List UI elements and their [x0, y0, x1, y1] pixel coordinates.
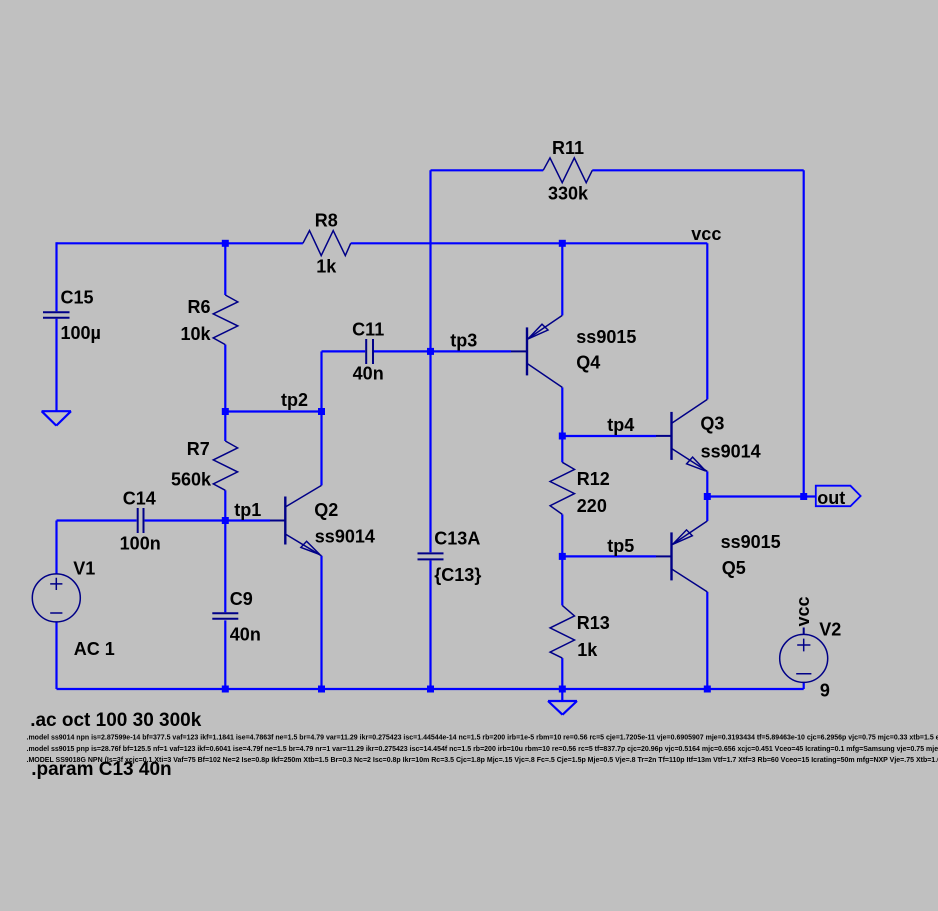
ground flag GND1 [42, 411, 71, 425]
svg-text:C14: C14 [123, 489, 156, 509]
svg-text:40n: 40n [353, 364, 384, 384]
svg-text:tp2: tp2 [281, 390, 308, 410]
svg-text:R13: R13 [577, 613, 610, 633]
wire Q2 emitter drop [320, 556, 322, 689]
capacitor C14 [138, 508, 144, 533]
svg-text:R11: R11 [552, 138, 584, 158]
svg-text:1k: 1k [577, 640, 598, 660]
svg-text:vcc: vcc [691, 224, 721, 244]
junction node tp1 [222, 517, 229, 524]
resistor R11 [543, 158, 592, 183]
resistor R6 [213, 295, 238, 345]
svg-text:Q3: Q3 [700, 414, 724, 434]
wire R11 rail left of body [431, 169, 544, 171]
wire x430 lower (below C13A) [429, 561, 431, 690]
capacitor C15 [43, 312, 70, 318]
wire vcc rail left of R8 [57, 242, 303, 244]
svg-text:Q5: Q5 [722, 558, 746, 578]
junction node gnd rail 4 [559, 686, 566, 693]
wire C11 left riser [320, 351, 322, 411]
wire tp4 rail [562, 435, 656, 437]
transistor Q5 [656, 521, 707, 592]
junction node out left [704, 493, 711, 500]
resistor R12 [550, 462, 574, 514]
wire R7 bottom lead [224, 490, 226, 520]
svg-text:330k: 330k [548, 183, 589, 203]
junction node gnd rail 2 [318, 686, 325, 693]
out port flag [816, 486, 861, 507]
junction node tp4 [559, 433, 566, 440]
svg-text:V1: V1 [73, 558, 95, 578]
svg-text:C13A: C13A [434, 529, 480, 549]
svg-text:Q2: Q2 [314, 500, 338, 520]
svg-text:tp1: tp1 [234, 500, 261, 520]
wire tp5 rail [562, 555, 656, 557]
svg-text:V2: V2 [819, 620, 841, 640]
wire vcc rail right of R8 [351, 242, 708, 244]
wire tp1 rail right of C14 [145, 519, 270, 521]
wire R12 bottom lead [561, 514, 563, 556]
svg-text:.ac oct 100 30 300k: .ac oct 100 30 300k [30, 710, 202, 731]
wire R11 rail right of body [592, 169, 803, 171]
svg-text:220: 220 [577, 496, 607, 516]
svg-text:Q4: Q4 [576, 352, 600, 372]
voltage source V2 [780, 628, 828, 683]
svg-text:C11: C11 [352, 319, 384, 339]
svg-text:{C13}: {C13} [434, 565, 481, 585]
wire Q3 emitter drop to out [706, 471, 708, 496]
wire out rail [707, 495, 815, 497]
svg-text:.model ss9014 npn is=2.87599e-: .model ss9014 npn is=2.87599e-14 bf=377.… [27, 735, 938, 742]
wire R11 right drop to out [803, 170, 805, 496]
wire C15 top lead [55, 242, 57, 311]
wire V2 bottom lead [803, 682, 805, 689]
wire Q5 collector drop [706, 592, 708, 689]
junction node tp2 right [318, 408, 325, 415]
svg-text:out: out [817, 488, 845, 508]
junction node out right [800, 493, 807, 500]
wire tp2 rail [225, 410, 321, 412]
resistor R7 [213, 441, 237, 490]
svg-text:R12: R12 [577, 469, 610, 489]
wire Q4 collector drop [561, 387, 563, 436]
junction node tp5 [559, 553, 566, 560]
svg-text:40n: 40n [230, 625, 261, 645]
svg-text:100µ: 100µ [61, 323, 101, 343]
transistor Q3 [656, 399, 707, 471]
wire C15 bottom lead to ground [55, 319, 57, 411]
junction node gnd rail 3 [427, 686, 434, 693]
capacitor C11 [366, 339, 373, 364]
ground flag GND2 [548, 689, 577, 715]
svg-text:ss9014: ss9014 [315, 526, 375, 546]
svg-text:ss9015: ss9015 [576, 327, 636, 347]
wire tp1 rail left of C14 [57, 519, 137, 521]
transistor Q4 [511, 315, 562, 387]
junction node gnd rail 1 [222, 686, 229, 693]
wire Q4 emitter riser [561, 243, 563, 315]
svg-text:AC 1: AC 1 [74, 639, 115, 659]
svg-text:tp5: tp5 [607, 536, 634, 556]
junction node vcc-R6 [222, 240, 229, 247]
junction node tp2 left [222, 408, 229, 415]
wire Q2 collector riser [320, 412, 322, 486]
svg-text:tp3: tp3 [450, 331, 477, 351]
svg-text:1k: 1k [316, 257, 337, 277]
wire C9 top lead [224, 521, 226, 613]
wire C11 left lead [322, 350, 366, 352]
svg-text:R6: R6 [187, 297, 210, 317]
wire C11 right lead [374, 350, 431, 352]
svg-text:.param C13 40n: .param C13 40n [31, 759, 171, 780]
resistor R8 [303, 231, 351, 256]
capacitor C13A [418, 553, 444, 559]
transistor Q2 [270, 485, 322, 555]
svg-text:100n: 100n [120, 534, 161, 554]
wire R13 bottom lead [561, 658, 563, 689]
wire R11 left riser x430 upper [429, 170, 431, 552]
capacitor C9 [212, 613, 238, 619]
wire R13 top lead [561, 556, 563, 605]
wire R6 bottom lead [224, 345, 226, 412]
svg-text:R8: R8 [315, 211, 338, 231]
resistor R13 [550, 605, 574, 658]
voltage source V1 [32, 574, 80, 622]
svg-text:560k: 560k [171, 470, 212, 490]
svg-text:C9: C9 [230, 589, 253, 609]
wire R7 top lead [224, 412, 226, 442]
svg-text:R7: R7 [187, 439, 210, 459]
svg-text:tp4: tp4 [607, 415, 634, 435]
wire Q5 emitter riser [706, 497, 708, 522]
svg-text:ss9015: ss9015 [721, 532, 781, 552]
svg-text:.model ss9015 pnp is=28.76f bf: .model ss9015 pnp is=28.76f bf=125.5 nf=… [27, 746, 938, 753]
wire V1 top lead [55, 521, 57, 575]
junction node vcc-Q4 [559, 240, 566, 247]
junction node tp3 [427, 348, 434, 355]
svg-text:9: 9 [820, 680, 830, 700]
wire V1 bottom lead [55, 622, 57, 689]
svg-text:10k: 10k [180, 324, 211, 344]
wire vcc rail drop to Q3 collector [706, 243, 708, 399]
wire tp3 stub to Q4 base [431, 350, 512, 352]
wire bottom ground rail [57, 688, 804, 690]
wire C9 bottom lead [224, 620, 226, 689]
wire R6 top lead [224, 243, 226, 295]
svg-text:vcc: vcc [793, 596, 813, 626]
wire R12 top lead [561, 436, 563, 462]
junction node gnd rail 5 [704, 686, 711, 693]
svg-text:C15: C15 [61, 288, 94, 308]
svg-text:ss9014: ss9014 [701, 442, 761, 462]
